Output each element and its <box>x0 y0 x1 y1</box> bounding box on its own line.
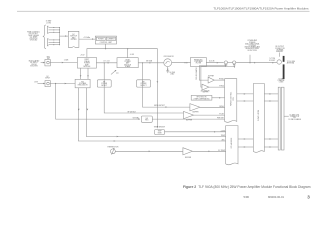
arrowheads <box>43 35 274 152</box>
svg-text:BUFFER: BUFFER <box>186 120 193 122</box>
box T2 <box>226 126 238 165</box>
wire rvs sample <box>201 64 234 87</box>
figure caption <box>183 185 311 189</box>
svg-text:+13V8: +13V8 <box>221 130 226 132</box>
connector pin strip 2 <box>281 87 284 150</box>
svg-text:FILTER: FILTER <box>71 39 77 41</box>
wire w1 to t1 <box>212 97 225 99</box>
op-amp OA3 <box>183 148 193 155</box>
svg-text:DRIVE DETECT: DRIVE DETECT <box>154 105 165 107</box>
wire coupler out <box>236 62 277 64</box>
box D1 <box>97 80 111 87</box>
wire oa3 out <box>193 150 226 152</box>
svg-text:FIRST: FIRST <box>85 59 90 61</box>
connector pin bracket 2 <box>47 39 48 46</box>
dc input plug <box>45 81 50 87</box>
box T1 <box>225 79 237 123</box>
op-amp OA1 <box>190 104 200 111</box>
box AMP2 <box>117 58 138 68</box>
svg-text:POWER: POWER <box>125 61 132 63</box>
wire reg down left long <box>78 88 225 141</box>
wire t1 to t3 b <box>237 100 254 102</box>
svg-text:RVS: RVS <box>233 64 236 66</box>
wire t3 to strip d <box>264 146 278 148</box>
op-amp OA2 <box>184 111 194 118</box>
svg-text:THERMISTOR: THERMISTOR <box>107 147 119 149</box>
svg-text:RF DETECTOR: RF DETECTOR <box>197 97 207 99</box>
box D2 <box>137 80 151 87</box>
rf bracket bar upper <box>283 56 285 62</box>
wire oaa out <box>214 79 224 81</box>
svg-text:TLF 940A (800 MHz) 25W Power A: TLF 940A (800 MHz) 25W Power Amplifier M… <box>198 185 311 189</box>
box B2 inner right <box>106 37 115 40</box>
pin wires group 2 <box>49 39 60 41</box>
svg-text:SKT: SKT <box>47 58 50 60</box>
bus wire <box>87 49 157 129</box>
svg-text:MODULE: MODULE <box>83 66 90 68</box>
leader tb3 <box>284 115 289 117</box>
svg-text:PWR SET: PWR SET <box>217 118 224 120</box>
wire amp2 to circulator <box>138 62 164 64</box>
svg-text:REG: REG <box>145 120 148 122</box>
wire t3 to strip a <box>264 93 278 95</box>
box W1 temp compensated detector <box>191 95 212 100</box>
ground load <box>166 70 169 72</box>
wire dc to reg <box>50 83 75 85</box>
leader tb1 <box>249 55 251 63</box>
svg-text:DETECT: DETECT <box>141 85 147 87</box>
wire amp1 to reg right <box>87 68 89 79</box>
box B2 power control outer <box>95 36 116 44</box>
svg-text:BUFFER: BUFFER <box>208 76 214 78</box>
wire oa2 out <box>194 114 225 116</box>
svg-text:TEMP: TEMP <box>221 135 225 137</box>
wire dc drop down <box>56 84 140 120</box>
wire fwd sample <box>199 64 226 80</box>
svg-text:BUFFER: BUFFER <box>193 111 200 113</box>
wire d1 tap <box>104 63 183 113</box>
leader tb2 <box>278 53 280 57</box>
box F1 <box>141 116 152 122</box>
header rule <box>17 10 310 12</box>
svg-text:TLF1000A/TLF1900A/TLF1980A/TLF: TLF1000A/TLF1900A/TLF1980A/TLF1920A Powe… <box>213 7 309 11</box>
svg-text:POWER: POWER <box>98 39 105 41</box>
footer <box>244 194 311 199</box>
wire oa1 out <box>200 106 225 108</box>
svg-text:SOCKET: SOCKET <box>269 60 275 62</box>
op-amp OAb <box>202 84 209 90</box>
trimmer <box>111 70 116 74</box>
box B1 dc switch <box>68 31 79 47</box>
wire oab out <box>209 86 225 88</box>
wire bus drop to amp2 <box>127 49 129 58</box>
svg-text:TEMP: TEMP <box>158 131 162 133</box>
op-amp OAa <box>208 77 214 83</box>
wire d2 tap <box>143 63 190 107</box>
svg-text:3W 3dB: 3W 3dB <box>146 60 153 62</box>
coupler circle 2 <box>233 61 236 64</box>
box F2 <box>155 130 165 135</box>
svg-text:MODULE: MODULE <box>124 64 131 66</box>
svg-text:DETECTORS: DETECTORS <box>248 50 257 52</box>
wire rf input arrow <box>41 62 45 64</box>
box B2 inner left <box>96 37 105 40</box>
svg-text:20.0 dB: 20.0 dB <box>209 60 215 62</box>
svg-text:DRIVE: DRIVE <box>219 106 224 108</box>
svg-text:+21.5dBm: +21.5dBm <box>83 37 91 39</box>
svg-text:EXCITER: EXCITER <box>30 66 38 68</box>
wire dc input arrow <box>38 83 46 85</box>
pin wires group 1 <box>49 27 60 29</box>
svg-text:9V0: 9V0 <box>146 118 149 120</box>
svg-text:BUFFER: BUFFER <box>203 91 209 93</box>
svg-text:FILTER: FILTER <box>196 63 202 65</box>
box AMP1 <box>77 57 96 68</box>
circulator <box>164 59 172 67</box>
svg-text:P DET: P DET <box>219 114 223 116</box>
box T3 <box>253 84 264 153</box>
wire reg down right long <box>86 88 225 137</box>
tiny labels <box>27 20 301 159</box>
wire F1 to T1 <box>152 118 224 120</box>
svg-text:DETECT: DETECT <box>101 85 107 87</box>
wire thermistor to oa3 <box>115 150 183 152</box>
wire filter to coupler <box>206 62 224 64</box>
wire between couplers <box>228 62 233 64</box>
svg-text:CURRENT: CURRENT <box>107 39 114 41</box>
svg-text:13V8: 13V8 <box>34 82 38 84</box>
wire t3 to strip b <box>264 100 278 102</box>
svg-text:5/96: 5/96 <box>244 195 250 199</box>
svg-text:RF DETECT: RF DETECT <box>128 111 137 113</box>
svg-text:P RVS: P RVS <box>219 86 223 88</box>
svg-text:INPUT: INPUT <box>45 78 50 80</box>
svg-text:9V0: 9V0 <box>81 81 84 83</box>
svg-text:LTC 1/4: LTC 1/4 <box>104 60 110 62</box>
svg-text:BUFFER: BUFFER <box>185 157 192 159</box>
svg-text:GROUND: GROUND <box>30 40 38 42</box>
thermistor <box>111 149 116 154</box>
svg-text:FWD: FWD <box>224 64 227 66</box>
svg-text:POWER CONTROL: POWER CONTROL <box>231 92 233 106</box>
wire B2 drop to bus <box>105 44 107 49</box>
svg-text:DC TEMP: DC TEMP <box>218 150 225 152</box>
svg-text:M9000-00-01: M9000-00-01 <box>268 195 284 199</box>
wire amp1 to reg left <box>80 68 82 79</box>
rf out connector circle <box>277 60 281 64</box>
wire t2 to t3 d <box>238 146 253 148</box>
wire amp1 to amp2 <box>96 62 117 64</box>
coupler circle 1 <box>224 61 227 64</box>
connector pin bracket 1 <box>47 26 48 33</box>
wire f2 out <box>165 131 226 133</box>
rf bracket bar lower <box>283 64 285 79</box>
svg-text:CONN: CONN <box>279 82 283 84</box>
svg-text:LOOM: LOOM <box>46 22 51 24</box>
connector pin strip 1 <box>278 87 280 150</box>
wire rail to B1 <box>60 35 69 37</box>
wire rf in to amp1 <box>50 62 77 64</box>
wire t1 to t3 a <box>237 93 254 95</box>
svg-text:3: 3 <box>307 194 310 199</box>
brace <box>43 25 46 49</box>
svg-text:TEMP. SENSOR: TEMP. SENSOR <box>154 127 166 129</box>
svg-text:POWER: POWER <box>84 63 91 65</box>
wire B1 to B2 <box>79 38 95 40</box>
wire t2 to t3 c <box>238 138 253 140</box>
svg-text:PCB: PCB <box>233 97 235 100</box>
svg-text:CONTROL LIMIT: CONTROL LIMIT <box>100 42 112 44</box>
box REG <box>75 79 90 88</box>
wire circulator load <box>167 67 169 71</box>
rf input connector <box>45 60 50 66</box>
pin rail <box>59 28 61 45</box>
svg-text:SNSR: SNSR <box>158 132 162 134</box>
box HF harmonic filter <box>191 58 207 67</box>
wire t3 to strip c <box>264 138 278 140</box>
wire circulator to filter <box>172 62 191 64</box>
svg-text:Figure 2: Figure 2 <box>183 185 196 189</box>
